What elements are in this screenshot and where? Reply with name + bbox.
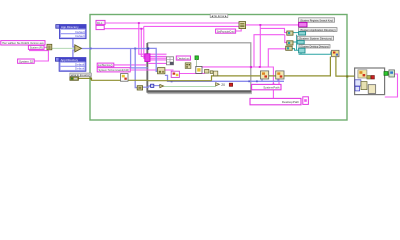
indicator row4 System Desktop Directory [299, 45, 330, 53]
junction pink dots [138, 22, 275, 85]
magenta bundle blob at loop border [145, 54, 150, 62]
array table icon [167, 57, 174, 65]
wire path G3 to desktop indicator [292, 49, 298, 51]
VI H icon top right [332, 50, 340, 56]
string constant System 32 [18, 59, 35, 64]
string constant System (R) [28, 45, 44, 49]
svg-text:(System System Directory): (System System Directory) [299, 37, 333, 41]
wire refnum loop exit bottom right [251, 79, 284, 81]
glyph arrow node [160, 84, 164, 87]
wire error in to case border [78, 78, 120, 80]
wire pink loop output to SystemPath and DesktopPath [200, 67, 273, 99]
file dialog icon [196, 66, 202, 73]
svg-text:App.Directory: App.Directory [61, 58, 79, 62]
stop terminal red [229, 83, 232, 86]
wire refnum branch down to open node [135, 49, 137, 88]
string constant SetPromote [216, 29, 236, 34]
small icon r3 [213, 71, 217, 76]
compare equal node [47, 44, 52, 50]
wire refnum iteration to glyph [154, 85, 160, 87]
wire pink string constant 3 to compare [29, 50, 48, 61]
increment glyph [216, 83, 226, 88]
svg-text:◄No Error►: ◄No Error► [211, 14, 228, 18]
wire pink string constant 2 to compare [44, 46, 47, 48]
junction refnum dots [90, 47, 150, 49]
small icon r1 [205, 69, 209, 73]
wire pink label confService [114, 63, 167, 65]
boolean constant true right [384, 72, 388, 76]
wire refnum property node 1 to select [73, 39, 75, 47]
string icon 1 (DLL) [96, 20, 105, 24]
svg-text:Hier wählen Sie DAkkS Version: Hier wählen Sie DAkkS Version aus [2, 41, 44, 45]
iteration terminal [151, 84, 154, 87]
indicator DesktopPath [250, 98, 301, 104]
wire pink icon B to SystemPath [278, 79, 280, 84]
string to path node G1 [287, 31, 293, 35]
wire pink rail1 from string constant icon1 [105, 22, 239, 24]
svg-text:DLL: DLL [97, 21, 103, 25]
small icon r2 [210, 71, 213, 74]
wire pink far right hook [385, 74, 398, 97]
wire pink vertical B with rung to node G1 [260, 25, 287, 67]
boolean constant T inside loop [195, 56, 198, 67]
wire path band to VI H [299, 52, 331, 55]
svg-text:confService(): confService() [98, 63, 113, 67]
while loop (inner gray structure) [147, 43, 252, 94]
label confService [97, 63, 114, 67]
four-dot compare icon [185, 63, 191, 69]
string to path node G2 [287, 41, 293, 45]
property node 2 [55, 58, 85, 72]
selector label No Error [210, 14, 228, 18]
svg-text:System 32: System 32 [19, 60, 33, 64]
wire pink drop2 into loop [141, 29, 166, 57]
label error in no error [70, 73, 91, 77]
wire pink rail2 from string constant icon2 [104, 26, 239, 28]
string to path node G3 [286, 46, 293, 50]
junction refnum bottom dots [171, 80, 258, 82]
wire error to while loop [128, 79, 148, 81]
svg-text:Default: Default [75, 34, 84, 38]
svg-text:System (R): System (R) [30, 46, 43, 50]
wire pink vertical C with rung to node G3 [268, 49, 285, 67]
VI icon B [276, 71, 284, 79]
wire path G1 to indicator [293, 32, 298, 34]
svg-text:System.TxtCommand(cLW): System.TxtCommand(cLW) [99, 68, 130, 72]
error in cluster constant [70, 77, 79, 80]
scan string icon pink [171, 71, 179, 77]
svg-text:SetPromoteCmd: SetPromoteCmd [217, 30, 235, 34]
wire pink output rail to registry indicator [246, 24, 299, 26]
indicator row2 System Application Directory [299, 28, 337, 35]
wire pink drop1 into loop [139, 23, 167, 54]
wire boolean to stop terminal [164, 85, 216, 87]
node D open reference [137, 86, 142, 90]
svg-text:20: 20 [221, 83, 225, 87]
label free comment (Hier waehlen Sie ...) [1, 41, 45, 45]
string constant inside loop [176, 56, 190, 60]
wire error right of cluster box [367, 73, 389, 75]
junction error dots [90, 73, 380, 79]
case structure (No Error) green border [90, 15, 347, 121]
wire refnum property node 2 to select [73, 50, 75, 57]
VI icon A [260, 71, 268, 79]
svg-text:error in (no error): error in (no error) [71, 73, 91, 77]
loop inner icon pair left [158, 68, 165, 74]
label System.TxtCommand [97, 68, 130, 72]
wire error rail to VI H and out of case [251, 57, 358, 77]
svg-text:(System Registry Search Key): (System Registry Search Key) [300, 18, 333, 22]
wire path vertical rail [296, 35, 298, 51]
svg-text:App.Directory: App.Directory [61, 25, 79, 29]
svg-text:DesktopPath: DesktopPath [282, 100, 300, 104]
wire pink inner row to wait icons [179, 72, 204, 74]
wire refnum inside loop top [148, 48, 251, 81]
wire boolean from compare to select [52, 47, 75, 49]
svg-text:Checked out: Checked out [177, 56, 189, 60]
exit icon far right [389, 70, 395, 77]
indicator row3 System System Directory [297, 36, 333, 44]
format into string node E [239, 22, 246, 29]
wire pink drop3 into loop [144, 29, 167, 59]
VI icon in error path [121, 74, 129, 82]
wire refnum node D output into loop [143, 86, 151, 87]
indicator SystemPath [252, 84, 281, 89]
svg-text:Default: Default [75, 67, 84, 71]
wire pink entry 4 [148, 59, 167, 61]
wire pink from label SetPromote to format node [233, 29, 241, 31]
wire refnum select output into loop [81, 48, 148, 50]
property node 1 [56, 25, 86, 39]
wire path G2 to indicator [293, 41, 297, 43]
small pink terminal icon bottom [303, 97, 309, 105]
wire pink label TxtCommand to loop [130, 69, 174, 71]
svg-text:SystemPath: SystemPath [263, 85, 280, 89]
wire pink vertical A with rung to node G2 [254, 35, 287, 67]
select function triangle [75, 45, 82, 52]
string icon 2 [96, 25, 104, 29]
wire error rail inside loop [148, 76, 251, 81]
wire refnum branch into loop lower left [131, 49, 148, 68]
indicator row1 System Registry Search Key [299, 18, 335, 27]
cluster box right outside [355, 68, 385, 95]
